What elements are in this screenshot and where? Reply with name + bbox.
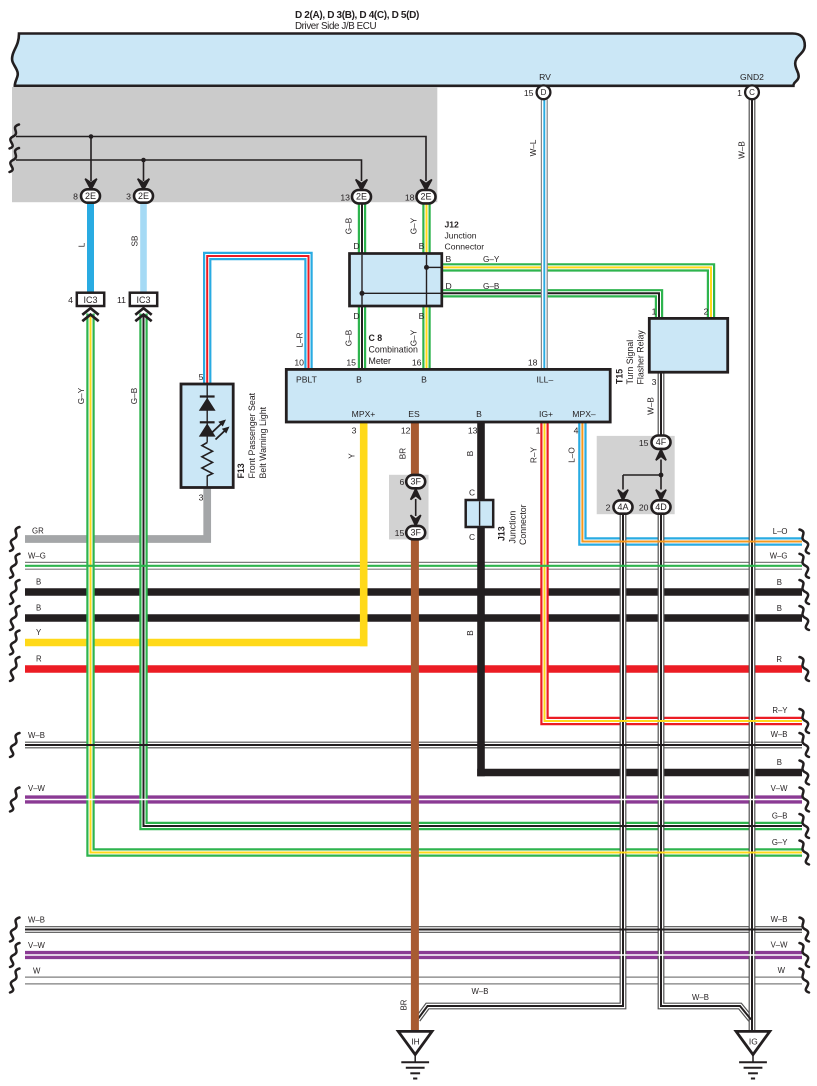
LED D2 in F13 [199, 420, 230, 440]
break L-O right [800, 530, 810, 554]
wire W-B (T15 pin3 to 4F) [658, 372, 665, 436]
break W-G left [10, 554, 20, 578]
svg-text:G–B: G–B [772, 811, 788, 820]
svg-text:10: 10 [294, 358, 304, 368]
diode D1 in F13 [199, 397, 216, 411]
wire B (pin 13) row [477, 769, 802, 777]
arrow down into 4A [618, 490, 628, 501]
arrow into 2E pin 13 [356, 180, 368, 191]
svg-text:B: B [421, 374, 427, 384]
wire V-W row (mid) [25, 795, 802, 803]
svg-text:15: 15 [639, 438, 649, 448]
connector D (RV pin 15) [537, 85, 551, 99]
junction dot 4F branch [659, 473, 664, 478]
wire W-B (4D to ground IG) [661, 513, 751, 1019]
svg-text:R–Y: R–Y [772, 706, 788, 715]
arrow into 2E pin 8 [85, 179, 97, 190]
svg-text:Turn Signal: Turn Signal [625, 340, 635, 385]
junction connector J12 [350, 254, 442, 307]
arrow up into 3F-6 [411, 489, 421, 500]
wire W-B row (mid) [25, 742, 802, 749]
wire R row [25, 665, 802, 673]
svg-text:W: W [33, 966, 41, 975]
svg-text:B: B [419, 241, 425, 251]
svg-text:4: 4 [574, 426, 579, 436]
break W-B bottom left [10, 918, 20, 942]
wire W-G row [25, 562, 802, 570]
svg-text:W–B: W–B [771, 730, 788, 739]
svg-text:3: 3 [652, 377, 657, 387]
break W-B bottom right [800, 918, 810, 942]
svg-text:4F: 4F [656, 437, 667, 447]
svg-text:B: B [466, 630, 475, 636]
svg-text:1: 1 [652, 306, 657, 316]
svg-text:L–O: L–O [568, 447, 577, 462]
break W-B mid right [800, 733, 810, 757]
svg-text:Driver Side J/B ECU: Driver Side J/B ECU [295, 21, 376, 32]
wire bus 1 (to 2E pins 8 and 18) [16, 137, 426, 182]
arrow down into 3F-15 [411, 515, 421, 526]
svg-text:Y: Y [36, 628, 42, 637]
break V-W bottom right [800, 943, 810, 967]
ground IH [398, 1031, 432, 1078]
connector IC3 pin 11 [130, 293, 157, 306]
svg-text:T15: T15 [615, 369, 625, 384]
break G-B right [800, 814, 810, 838]
svg-text:20: 20 [639, 503, 649, 513]
wire drop to 2E pin 8 [90, 137, 92, 182]
wire G-B long (IC3 to right edge) [144, 314, 803, 827]
svg-text:1: 1 [737, 88, 742, 98]
svg-text:IH: IH [411, 1037, 419, 1047]
svg-text:3: 3 [352, 426, 357, 436]
center stripes: wire rows [25, 566, 802, 955]
wire SB (2E-3 to IC3-11) [140, 202, 147, 292]
svg-text:W–G: W–G [28, 552, 46, 561]
svg-text:3: 3 [126, 192, 131, 202]
svg-text:SB: SB [131, 235, 140, 246]
svg-text:D: D [541, 88, 547, 97]
link line 4F to branch [660, 460, 662, 490]
wire GR row [25, 488, 207, 540]
svg-text:D: D [353, 241, 359, 251]
ground IG [736, 1031, 770, 1078]
wire Y (MPX+) vertical [360, 423, 368, 647]
svg-text:R: R [36, 654, 42, 663]
wire L (2E-8 to IC3-4) [87, 202, 94, 292]
svg-text:J13: J13 [497, 526, 507, 541]
connector IC3 pin 4 [77, 293, 104, 306]
svg-text:16: 16 [412, 358, 422, 368]
break R left [10, 657, 20, 681]
svg-text:18: 18 [405, 192, 415, 202]
break W bottom left [10, 969, 20, 993]
svg-text:W: W [778, 966, 786, 975]
svg-text:G–Y: G–Y [772, 838, 788, 847]
junction dot bus1/pin8 [89, 134, 94, 139]
svg-text:D: D [446, 281, 452, 291]
svg-text:R–Y: R–Y [530, 447, 539, 463]
connector 4D pin 20 [652, 500, 671, 513]
turn signal flasher relay T15 [649, 318, 727, 372]
svg-text:G–Y: G–Y [410, 217, 419, 234]
break B1 left [10, 580, 20, 604]
resistor in F13 [202, 443, 213, 477]
svg-text:2: 2 [704, 306, 709, 316]
svg-text:B: B [36, 603, 41, 612]
svg-text:G–B: G–B [345, 217, 354, 234]
break symbol bus 1 [10, 125, 20, 149]
svg-text:18: 18 [528, 358, 538, 368]
svg-text:4A: 4A [617, 502, 628, 512]
link line 3F [415, 499, 417, 516]
C8 pin names top [296, 374, 553, 384]
wire L-R (F13 pin5 to C8 pin10) [207, 256, 308, 384]
svg-text:B: B [446, 254, 452, 264]
arrow into 2E pin 3 [138, 179, 150, 190]
svg-text:1: 1 [536, 426, 541, 436]
svg-text:11: 11 [117, 295, 126, 305]
wire G-B (J12 to C8 pin 15) [358, 306, 366, 369]
break GR [10, 527, 20, 551]
svg-text:Junction: Junction [508, 511, 518, 544]
break W-B mid left [10, 733, 20, 757]
svg-text:B: B [777, 578, 782, 587]
svg-text:C 8: C 8 [369, 333, 383, 343]
svg-text:MPX+: MPX+ [352, 409, 376, 419]
svg-text:G–B: G–B [130, 387, 139, 404]
svg-text:2: 2 [606, 503, 611, 513]
svg-text:15: 15 [395, 528, 405, 538]
front passenger seat belt warning light F13 [181, 384, 233, 488]
C8 pin names bottom [352, 409, 596, 419]
wire V-W row (bottom) [25, 951, 802, 959]
break B3 right [800, 761, 810, 785]
break R right [800, 657, 810, 681]
svg-text:G–B: G–B [345, 329, 354, 346]
svg-text:B: B [476, 409, 482, 419]
connector 3F pin 6 [406, 475, 425, 488]
wire W-B row (bottom) [25, 926, 802, 933]
svg-text:C: C [469, 532, 475, 542]
wire G-Y long (IC3 to right edge) [91, 314, 803, 853]
svg-text:ILL–: ILL– [537, 374, 554, 384]
svg-text:Junction: Junction [445, 231, 477, 241]
wire W-L (RV to C8 ILL-) [541, 99, 548, 369]
break W bottom right [800, 969, 810, 993]
wire W-B (GND2 to ground IG) [749, 99, 756, 1032]
break R-Y right [800, 709, 810, 733]
wire G-B (J12 to T15 pin 1) [442, 293, 659, 318]
svg-text:B: B [36, 577, 41, 586]
wire W-B (4A to ground IH) [418, 513, 624, 1019]
wire Y (MPX+) row [25, 639, 368, 647]
gray box 4F/4A/4D [597, 436, 675, 514]
svg-text:BR: BR [400, 999, 409, 1010]
wire G-Y (2E-18 to J12) [422, 202, 430, 253]
svg-text:B: B [356, 374, 362, 384]
svg-text:13: 13 [468, 426, 478, 436]
svg-text:R: R [776, 655, 782, 664]
svg-text:8: 8 [73, 192, 78, 202]
svg-text:3F: 3F [410, 528, 421, 538]
gray box 3F [389, 475, 429, 540]
svg-text:PBLT: PBLT [296, 374, 318, 384]
svg-text:15: 15 [524, 88, 534, 98]
svg-text:3F: 3F [410, 477, 421, 487]
wire bus 2 (to 2E pins 3 and 13) [16, 160, 362, 181]
break V-W mid left [10, 788, 20, 812]
svg-text:5: 5 [199, 372, 204, 382]
wire L-O (MPX-) row [582, 423, 802, 542]
svg-text:IG: IG [749, 1037, 758, 1047]
connector 4A pin 2 [614, 500, 633, 513]
svg-text:L–R: L–R [296, 332, 305, 347]
svg-text:Flasher Relay: Flasher Relay [635, 330, 645, 385]
svg-text:V–W: V–W [28, 784, 46, 793]
center stripes: connection wires [418, 99, 753, 1032]
junction connector J13 [466, 500, 494, 527]
svg-text:Connector: Connector [445, 242, 485, 252]
svg-text:W–B: W–B [472, 987, 489, 996]
svg-text:Meter: Meter [369, 356, 392, 366]
svg-text:Y: Y [348, 453, 357, 459]
svg-text:G–Y: G–Y [483, 255, 500, 264]
svg-text:V–W: V–W [771, 784, 789, 793]
connector 3F pin 15 [406, 526, 425, 539]
svg-text:MPX–: MPX– [572, 409, 596, 419]
wire G-Y (J12 to T15 pin 2) [442, 267, 711, 318]
svg-text:Connector: Connector [518, 504, 528, 545]
wire B row 2 [25, 614, 802, 622]
svg-text:4D: 4D [655, 502, 667, 512]
F13 internal wire [206, 384, 208, 443]
svg-text:W–B: W–B [647, 397, 656, 415]
svg-text:2E: 2E [138, 191, 149, 201]
svg-text:B: B [466, 450, 475, 456]
svg-text:13: 13 [340, 192, 350, 202]
svg-text:IG+: IG+ [539, 409, 553, 419]
svg-text:W–L: W–L [529, 139, 538, 156]
svg-text:2E: 2E [356, 192, 367, 202]
break W-G right [800, 554, 810, 578]
svg-text:12: 12 [401, 426, 411, 436]
svg-text:2E: 2E [420, 192, 431, 202]
wire drop to 2E pin 3 [143, 160, 145, 181]
chevron connector symbol under IC3-4 [82, 308, 98, 321]
svg-text:W–B: W–B [692, 993, 709, 1002]
combination meter C8 [286, 369, 610, 422]
svg-text:B: B [419, 311, 425, 321]
arrow up into 4F-15 [656, 449, 666, 460]
svg-text:BR: BR [399, 448, 408, 459]
wire B row 1 [25, 588, 802, 596]
wire B (pin 13) vertical [477, 423, 485, 777]
svg-text:2E: 2E [85, 191, 96, 201]
break B1 right [800, 580, 810, 604]
svg-text:GND2: GND2 [740, 72, 764, 82]
svg-text:G–Y: G–Y [77, 387, 86, 404]
svg-text:3: 3 [199, 492, 204, 502]
break B2 right [800, 606, 810, 630]
wire BR upper (C8 ES to 3F) [411, 423, 419, 476]
svg-text:IC3: IC3 [136, 295, 150, 305]
connector 2E pin 18 [417, 190, 436, 203]
svg-text:W–B: W–B [28, 915, 45, 924]
center stripes: branch wires [91, 314, 803, 853]
svg-text:Front Passenger Seat: Front Passenger Seat [247, 392, 257, 478]
svg-text:IC3: IC3 [83, 295, 97, 305]
svg-text:D: D [353, 311, 359, 321]
break V-W bottom left [10, 943, 20, 967]
break V-W mid right [800, 788, 810, 812]
svg-text:GR: GR [32, 527, 44, 536]
svg-text:L: L [78, 242, 87, 247]
svg-text:B: B [777, 758, 782, 767]
svg-text:ES: ES [408, 409, 420, 419]
arrow into 2E pin 18 [420, 180, 432, 191]
connector block shading (2E area) [12, 87, 437, 202]
svg-text:W–G: W–G [770, 552, 788, 561]
svg-text:15: 15 [346, 358, 356, 368]
svg-text:4: 4 [68, 295, 73, 305]
wire W row (bottom) [25, 977, 802, 985]
svg-text:F13: F13 [236, 463, 246, 478]
svg-text:D 2(A), D 3(B), D 4(C), D 5(D): D 2(A), D 3(B), D 4(C), D 5(D) [295, 10, 419, 21]
connector 2E pin 8 [81, 189, 100, 202]
break Y left [10, 631, 20, 655]
wire G-B (2E-13 to J12) [358, 202, 366, 253]
wire BR lower (3F to ground IH) [411, 539, 419, 1033]
connector 2E pin 13 [352, 190, 371, 203]
J/B ECU bus bar (Driver Side J/B ECU) [12, 34, 805, 86]
svg-text:RV: RV [539, 72, 551, 82]
svg-text:W–B: W–B [28, 731, 45, 740]
break symbol bus 2 [10, 148, 20, 172]
connector 2E pin 3 [134, 189, 153, 202]
connector C (GND2 pin 1) [745, 85, 759, 99]
svg-text:V–W: V–W [771, 941, 789, 950]
connector 4F pin 15 [652, 436, 671, 449]
svg-text:L–O: L–O [773, 527, 788, 536]
wire G-Y (J12 to C8 pin 16) [422, 306, 430, 369]
svg-text:V–W: V–W [28, 941, 46, 950]
svg-text:G–B: G–B [483, 282, 500, 291]
svg-text:C: C [469, 487, 475, 497]
svg-text:B: B [777, 604, 782, 613]
svg-text:W–B: W–B [738, 141, 747, 159]
branch line to 4A [623, 474, 661, 476]
junction dot bus2/pin3 [141, 158, 146, 163]
wire R-Y (IG+) row [545, 423, 803, 722]
svg-text:J12: J12 [445, 220, 460, 230]
svg-text:6: 6 [399, 477, 404, 487]
svg-text:Combination: Combination [369, 345, 418, 355]
svg-text:C: C [749, 88, 755, 97]
svg-text:W–B: W–B [771, 915, 788, 924]
break G-Y right [800, 841, 810, 865]
svg-text:Belt Warning Light: Belt Warning Light [258, 406, 268, 478]
arrow down into 4D [656, 490, 666, 501]
chevron connector symbol under IC3-11 [135, 308, 151, 321]
break B2 left [10, 606, 20, 630]
